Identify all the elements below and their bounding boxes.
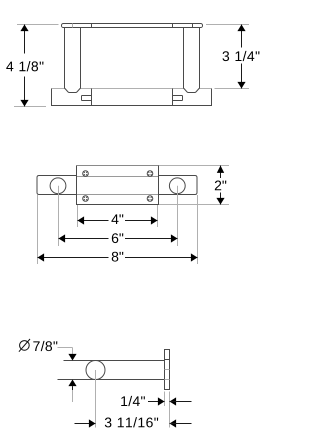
dia arrow down [68, 354, 76, 361]
left arm [37, 176, 77, 195]
left post [64, 28, 66, 88]
label 3 11/16" [105, 417, 158, 427]
bar line crossing plate top [77, 176, 159, 178]
arm bottom line [58, 379, 165, 381]
label 6" [112, 233, 123, 243]
ext vertical 6in left from circle center [58, 186, 60, 246]
extension line base top right segment [215, 88, 250, 90]
ext line plate top, to 2in dim [159, 165, 230, 167]
diameter symbol slash [19, 339, 30, 352]
dim 3 11/16 left arrow tail [75, 423, 96, 425]
right post [183, 28, 185, 88]
top bar [62, 24, 203, 28]
bar divider right inner [192, 24, 194, 28]
base notch right [173, 96, 183, 101]
base seam right [172, 89, 174, 106]
screw bottom-right [147, 196, 153, 202]
arrow down 4 1/8 [20, 100, 28, 107]
arm top line [64, 360, 165, 362]
arrow right 6in [171, 234, 178, 242]
dimension line 6in [59, 238, 178, 240]
base plate outline [52, 89, 212, 106]
wall plate divider 3 [165, 379, 170, 381]
extension line bottom-left (base bottom) [14, 106, 46, 108]
dim 3 11/16 left arrow [89, 419, 96, 427]
extension line top-right (bar top) [206, 24, 249, 26]
dia arrow tail gray [72, 390, 74, 402]
diameter symbol circle [20, 341, 30, 351]
dim 3 11/16 right arrow tail [170, 423, 192, 425]
plate top edge (light) [77, 165, 159, 167]
extension line top-left (bar top) [17, 24, 59, 26]
ext vertical 8in right [197, 195, 199, 264]
screw top-left [83, 171, 89, 177]
arrow right 8in [191, 253, 198, 261]
left post foot [65, 87, 81, 93]
base seam left [91, 89, 93, 106]
label 8" [112, 252, 124, 262]
ext plate left edge [164, 392, 166, 407]
label 4" [111, 214, 123, 224]
right post circle [169, 178, 185, 194]
bar line crossing plate bottom [77, 194, 159, 196]
arrow left 8in [38, 253, 45, 261]
right arm [159, 176, 198, 195]
arrow right 4in [151, 216, 158, 224]
mounting plate [77, 166, 159, 205]
dim 1/4 left arrow tail [148, 401, 165, 403]
arrow up 4 1/8 [20, 25, 28, 32]
base notch left [82, 96, 92, 101]
ext plate right edge [169, 392, 171, 428]
leader vertical [72, 348, 74, 355]
label 4 1/8" [6, 61, 43, 71]
left post circle [50, 178, 66, 194]
arrow down 2in [216, 198, 224, 205]
dim 3 11/16 right arrow [170, 419, 177, 427]
label 2" [215, 181, 226, 191]
ext vertical 8in left [37, 195, 39, 264]
ext vertical 6in right from circle center [177, 186, 179, 246]
dia arrow up [68, 380, 76, 387]
ext from circle center [95, 370, 97, 428]
dimension line 2in [220, 166, 222, 205]
dim 1/4 right arrow [170, 397, 177, 405]
ext vertical 4in right [157, 205, 159, 227]
bar end circle [86, 361, 105, 380]
arrow down 3 1/4 [237, 82, 245, 89]
bar divider left inner [72, 24, 74, 28]
dimension line 3 1/4 [241, 25, 243, 89]
label 7/8" [33, 341, 57, 351]
screw top-right [147, 171, 153, 177]
dimension line 4in [78, 220, 158, 222]
dia arrow tail [72, 386, 74, 390]
leader horizontal from dia label [58, 347, 73, 349]
bar divider right outer [172, 24, 174, 28]
wall plate divider 2 [165, 369, 170, 371]
arrow left 4in [78, 216, 85, 224]
wall plate divider 1 [165, 359, 170, 361]
bar divider left outer [91, 24, 93, 28]
right post foot [184, 87, 200, 93]
arrow up 3 1/4 [237, 25, 245, 32]
extension line base top, across to right dim [52, 88, 212, 90]
ext vertical 4in left [77, 205, 79, 227]
wall plate [165, 350, 170, 390]
dimension line 4 1/8 [24, 25, 26, 107]
arrow up 2in [217, 166, 224, 173]
dimension line 8in [38, 257, 198, 259]
label 3 1/4" [222, 51, 259, 61]
arrow left 6in [59, 234, 66, 242]
screw bottom-left [83, 196, 89, 202]
label 1/4" [121, 396, 145, 406]
dim 1/4 right arrow tail [170, 401, 192, 403]
dim 1/4 left arrow [158, 397, 165, 405]
ext line plate bottom right [159, 204, 230, 206]
